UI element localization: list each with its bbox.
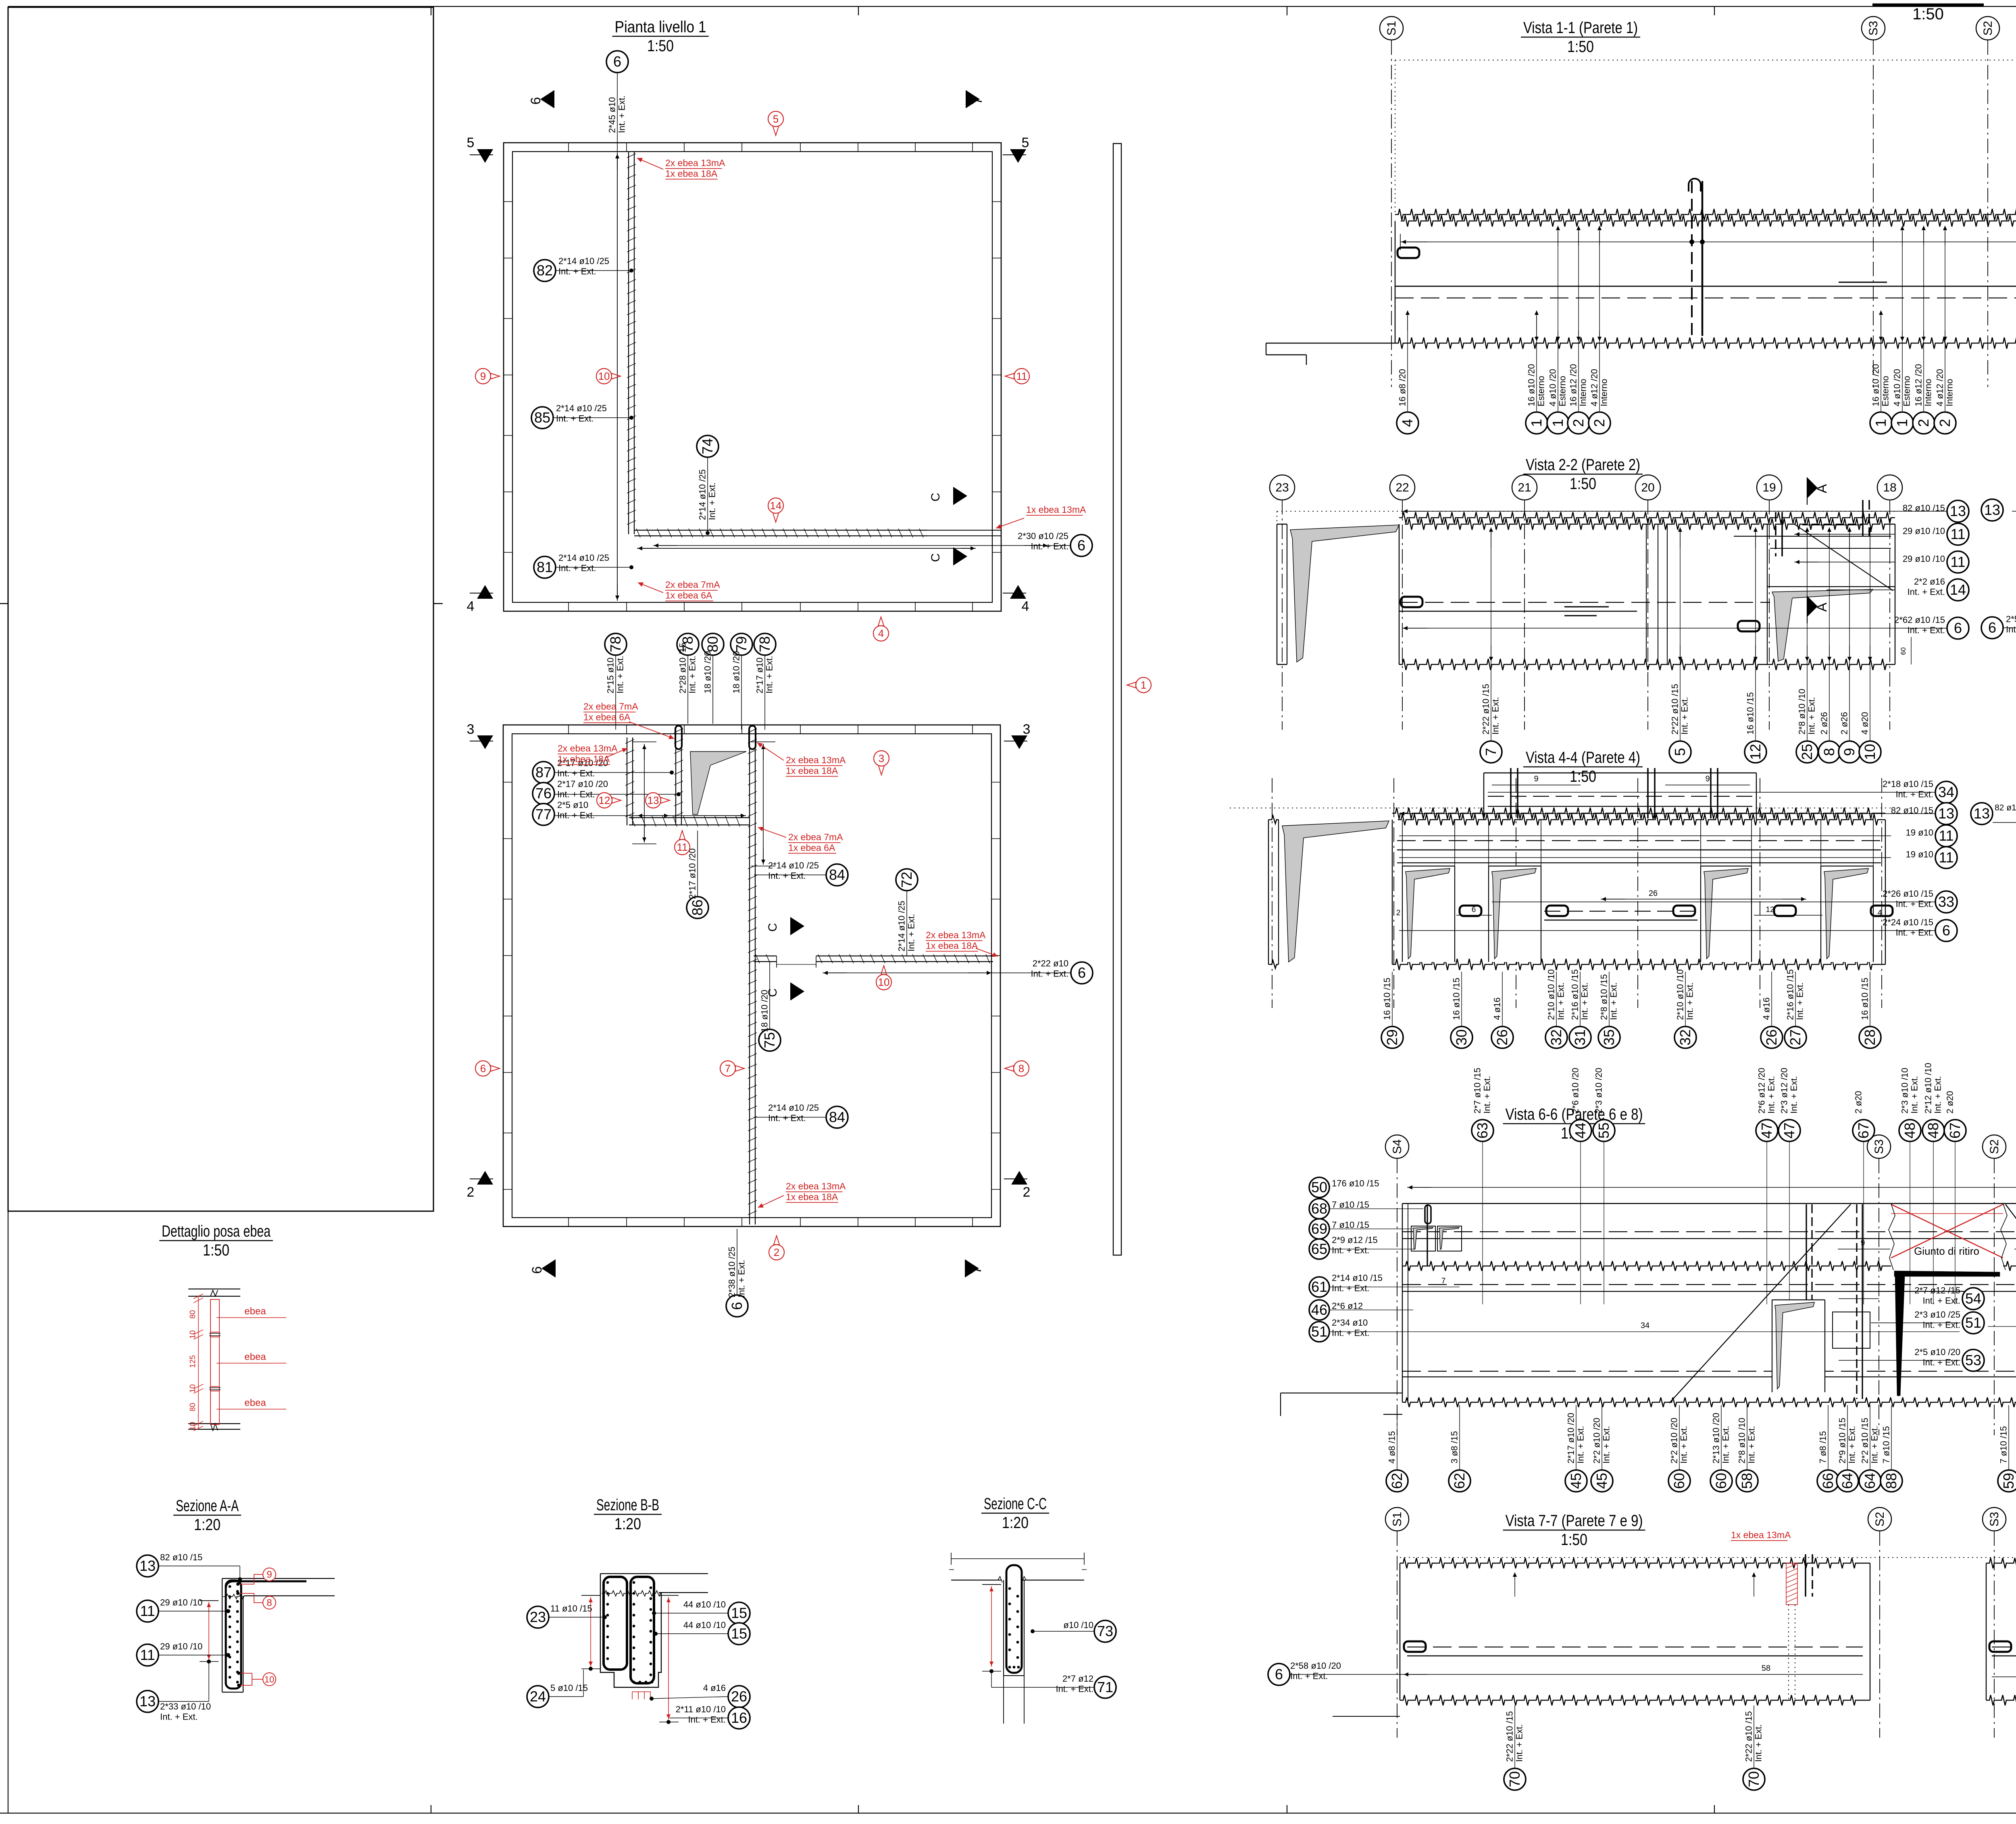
svg-text:48: 48: [1901, 1122, 1918, 1139]
svg-text:2*5 ø10: 2*5 ø10: [557, 800, 588, 810]
svg-text:16 ø10 /20: 16 ø10 /20: [1527, 364, 1537, 406]
svg-text:31: 31: [1572, 1029, 1588, 1045]
svg-text:2*9 ø12 /15: 2*9 ø12 /15: [1332, 1235, 1378, 1245]
dettaglio red bar joint 2: [210, 1386, 219, 1387]
v11 callout 1 at 4718: [1902, 231, 1903, 411]
svg-text:2*62 ø10 /15: 2*62 ø10 /15: [1894, 615, 1945, 625]
svg-text:ø10 /10: ø10 /10: [1063, 1620, 1093, 1630]
sezA top zigzag: [223, 1594, 244, 1599]
svg-text:67: 67: [1947, 1122, 1963, 1139]
svg-text:1:20: 1:20: [194, 1516, 221, 1534]
svg-text:1x ebea 13mA: 1x ebea 13mA: [1026, 504, 1086, 515]
v66 left callout 69: [1309, 1219, 1329, 1239]
midrow leader 78b: [687, 655, 688, 724]
v11 center bar dashed: [1691, 181, 1693, 336]
plan2 dim v: [644, 744, 645, 843]
svg-text:21: 21: [1518, 481, 1531, 494]
svg-text:Esterno: Esterno: [1902, 376, 1912, 406]
plan1 dim line: [617, 153, 618, 601]
dettaglio red bar: [210, 1299, 219, 1424]
v22 door left edge: [1767, 524, 1768, 664]
plan1 right wall joint: [992, 491, 1001, 492]
plan2 label 86: [687, 848, 698, 899]
v66 left callout 65: [1309, 1239, 1329, 1259]
v44 callout 27: [1795, 972, 1796, 1026]
svg-text:79: 79: [733, 636, 750, 652]
v44 gridline: [1637, 778, 1638, 1008]
plan2 marker 2 left: [477, 1171, 493, 1185]
svg-text:Int. + Ext.: Int. + Ext.: [558, 563, 596, 573]
svg-text:7: 7: [969, 1266, 984, 1274]
svg-text:15: 15: [731, 1605, 747, 1621]
svg-text:11: 11: [1950, 526, 1965, 542]
svg-text:2*2 ø10 /20: 2*2 ø10 /20: [1592, 1418, 1602, 1464]
svg-text:4: 4: [1878, 909, 1882, 917]
plan1 marker 4 right: [1010, 585, 1026, 599]
svg-text:4 ø10 /20: 4 ø10 /20: [1892, 369, 1902, 406]
plan1 left wall joint: [504, 435, 512, 436]
v44 gridline: [1272, 778, 1272, 1008]
svg-text:10: 10: [189, 1330, 197, 1339]
plan1 leader 85: [553, 417, 631, 418]
svg-text:29 ø10 /10: 29 ø10 /10: [1903, 526, 1945, 536]
plan1 leader 82: [556, 270, 631, 271]
midrow callout 78c: [754, 633, 776, 655]
sezC red dim: [991, 1586, 992, 1667]
v22 dim 82: [1402, 511, 1947, 512]
svg-text:Interno: Interno: [1578, 379, 1588, 407]
svg-text:2*17 ø10 /20: 2*17 ø10 /20: [687, 848, 698, 899]
v22 right callout 6: [1947, 617, 1969, 639]
v22 dashed rebar: [1399, 602, 1770, 603]
sezA slab line top: [222, 1578, 335, 1579]
svg-text:2x ebea 13mA: 2x ebea 13mA: [786, 1181, 846, 1191]
svg-text:62: 62: [1451, 1473, 1468, 1489]
svg-text:13: 13: [1950, 503, 1966, 519]
v22 arrow 11b: [1795, 562, 1818, 562]
v22 dim60 v: [1911, 637, 1912, 664]
dettaglio bottom slab line 1: [188, 1423, 240, 1424]
svg-text:9: 9: [1534, 775, 1538, 783]
svg-text:Interno: Interno: [1923, 379, 1933, 407]
v22 grid 23: [1270, 475, 1295, 500]
sezB callout 15b: [728, 1623, 750, 1645]
svg-text:2*38 ø10 /25: 2*38 ø10 /25: [727, 1247, 737, 1297]
svg-text:Int. + Ext.: Int. + Ext.: [1754, 1724, 1764, 1762]
v66 small rect: [1833, 1312, 1870, 1348]
svg-text:9: 9: [267, 1569, 272, 1580]
svg-text:2*9 ø10 /15: 2*9 ø10 /15: [1837, 1418, 1847, 1464]
svg-text:24: 24: [530, 1688, 546, 1705]
plan2 dim room arrows: [637, 815, 669, 816]
svg-text:3 ø8 /15: 3 ø8 /15: [1450, 1431, 1460, 1464]
svg-text:2*17 ø10 /20: 2*17 ø10 /20: [1566, 1413, 1576, 1464]
svg-text:S2: S2: [1981, 21, 1995, 36]
midrow callout 78b: [677, 633, 699, 655]
svg-text:6: 6: [729, 1302, 745, 1310]
plan2 callout 76: [533, 783, 554, 804]
svg-text:8: 8: [1821, 748, 1837, 756]
v11 callout 2 at 4824: [1945, 231, 1945, 411]
v22 top zigzag: [1399, 512, 1895, 523]
sezB rebar dots: [606, 1581, 609, 1584]
svg-text:13: 13: [1984, 502, 2000, 518]
svg-text:2*11 ø10 /10: 2*11 ø10 /10: [676, 1704, 726, 1714]
sezC slab left: [951, 1580, 1002, 1580]
svg-text:29 ø10 /10: 29 ø10 /10: [1903, 554, 1945, 564]
sezB rebar loop 1: [604, 1577, 627, 1670]
svg-text:6: 6: [1077, 537, 1085, 554]
top right thick bar: [1872, 4, 1984, 6]
plan1 interior horizontal wall: [634, 530, 927, 531]
svg-text:5: 5: [1022, 135, 1029, 150]
svg-text:30: 30: [1453, 1029, 1470, 1045]
v44 door opening: [1821, 866, 1873, 962]
v11 callout 1 at 3864: [1558, 231, 1558, 411]
plan1 dim line horiz: [637, 548, 976, 549]
svg-text:2*22 ø10 /15: 2*22 ø10 /15: [1744, 1711, 1754, 1762]
v44 gridline: [1393, 778, 1394, 1008]
svg-text:Int. + Ext.: Int. + Ext.: [1922, 1357, 1960, 1367]
plan2 left wall joint: [503, 782, 512, 783]
plan2 outer wall: [503, 725, 1000, 1226]
svg-text:1: 1: [1528, 419, 1545, 427]
plan2 marker 3 left: [477, 735, 493, 749]
svg-text:Int. + Ext.: Int. + Ext.: [1685, 982, 1695, 1020]
plan2 callout 86: [687, 897, 708, 918]
v11 callout 2 at 4771: [1923, 231, 1924, 411]
plan1 callout 6 top: [606, 51, 628, 73]
v66 black corner tail: [1895, 1276, 1905, 1396]
svg-text:2*16 ø10 /15: 2*16 ø10 /15: [1570, 969, 1580, 1020]
svg-text:14: 14: [770, 500, 782, 512]
svg-text:Esterno: Esterno: [1558, 376, 1568, 406]
plan1 bottom wall joint: [626, 602, 627, 611]
plan1 marker 5 left: [477, 149, 493, 163]
svg-text:19 ø10: 19 ø10: [1906, 828, 1934, 838]
svg-text:Sezione A-A: Sezione A-A: [176, 1497, 239, 1515]
v44 top zigzag: [1392, 808, 1885, 819]
svg-text:82 ø10 /15: 82 ø10 /15: [1903, 503, 1945, 513]
v11 top zigzag: [1395, 209, 2016, 220]
svg-text:80: 80: [189, 1310, 197, 1318]
v44 hook 4: [1774, 906, 1796, 916]
svg-text:75: 75: [761, 1032, 778, 1048]
dettaglio red dim line: [198, 1296, 199, 1428]
plan1 dim harrow r: [960, 548, 975, 549]
svg-text:Int. + Ext.: Int. + Ext.: [1747, 1426, 1757, 1464]
sezC slab break left: [998, 1576, 1002, 1582]
svg-text:2*3 ø10 /20: 2*3 ø10 /20: [1594, 1068, 1604, 1114]
svg-text:9: 9: [480, 370, 486, 382]
svg-text:7: 7: [1483, 748, 1499, 756]
plan2 red callout 7: [720, 1061, 735, 1076]
v22 band left edge: [1399, 524, 1400, 664]
svg-text:2*34 ø10: 2*34 ø10: [1332, 1318, 1368, 1328]
svg-text:6: 6: [1275, 1666, 1283, 1682]
svg-text:3: 3: [467, 722, 475, 737]
svg-text:7 ø10 /15: 7 ø10 /15: [1881, 1426, 1891, 1464]
sezC callout 73: [1094, 1620, 1116, 1642]
plan1 right wall joint: [992, 435, 1001, 436]
svg-text:1:20: 1:20: [614, 1515, 641, 1533]
svg-text:ebea: ebea: [244, 1306, 266, 1317]
sezB callout 23: [527, 1606, 549, 1628]
sezC callout 71: [1094, 1676, 1116, 1698]
plan2 red callout 3: [874, 751, 889, 766]
dettaglio bottom slab line 2: [188, 1429, 240, 1430]
svg-text:44 ø10 /10: 44 ø10 /10: [683, 1599, 726, 1610]
plan2 right wall joint: [991, 1072, 1000, 1073]
svg-text:9: 9: [1861, 1239, 1865, 1247]
v66 dim 9: [1838, 1249, 1890, 1249]
svg-text:60: 60: [1713, 1473, 1729, 1489]
v22 hook door: [1738, 621, 1760, 631]
v66 right leader 51: [1988, 1326, 2016, 1327]
svg-text:2*2 ø10 /15: 2*2 ø10 /15: [1860, 1418, 1870, 1464]
plan2 red callout 11: [675, 839, 690, 855]
svg-text:70: 70: [1745, 1771, 1762, 1787]
plan2 leader 6 bottom: [737, 1229, 737, 1295]
v66 top callout 67: [1944, 1120, 1966, 1141]
plan1 top wall joint: [915, 143, 916, 152]
v11 callout 2 at 3915: [1578, 231, 1579, 411]
plan1 left wall joint: [504, 201, 512, 202]
v44 right callout 13: [1935, 803, 1957, 825]
plan2 leader 6r arrow r: [968, 972, 991, 973]
sezA red callout 8: [263, 1596, 276, 1609]
v44 dim 6: [1456, 915, 1492, 916]
svg-text:29 ø10 /10: 29 ø10 /10: [160, 1641, 202, 1651]
svg-text:2*8 ø10 /10: 2*8 ø10 /10: [1737, 1418, 1747, 1464]
svg-text:Giunto di ritiro: Giunto di ritiro: [1914, 1245, 1979, 1257]
v66 mid zigzag: [1402, 1261, 1891, 1271]
v22 right callout 11: [1947, 551, 1969, 573]
midrow leader 80: [712, 655, 713, 724]
v22 right callout 14: [1947, 579, 1969, 601]
plan1 right wall joint: [992, 552, 1001, 553]
v44 hook 3: [1673, 906, 1695, 916]
plan2 marker 3 right: [1011, 735, 1027, 749]
v22 splice b: [1564, 615, 1597, 616]
svg-text:Vista 1-1 (Parete 1): Vista 1-1 (Parete 1): [1523, 19, 1638, 37]
svg-text:Interno: Interno: [1945, 379, 1955, 407]
plan2 left wall joint: [503, 899, 512, 900]
v22 grid 18: [1877, 475, 1902, 500]
svg-text:11: 11: [140, 1647, 155, 1663]
plan1 marker 6 top: [540, 90, 554, 108]
svg-text:55: 55: [1595, 1122, 1612, 1139]
svg-text:2*26 ø10 /15: 2*26 ø10 /15: [1883, 889, 1933, 899]
plan2 leader 84a: [754, 875, 826, 875]
v66 bottom zigzag: [1402, 1397, 2016, 1407]
v55 left callout 13: [1971, 803, 1993, 825]
sezC rebar dots: [1008, 1587, 1011, 1590]
svg-text:64: 64: [1839, 1473, 1856, 1489]
svg-text:4: 4: [1399, 419, 1416, 427]
svg-text:2: 2: [1915, 419, 1932, 427]
dettaglio top slab line 2: [188, 1296, 240, 1297]
v22 right callout 13: [1947, 500, 1969, 522]
dettaglio bottom break: [210, 1424, 218, 1430]
svg-text:71: 71: [1097, 1679, 1113, 1695]
sezA callout 11a: [137, 1600, 158, 1622]
v66 mid callout 51: [1962, 1312, 1984, 1334]
svg-text:88: 88: [1883, 1473, 1899, 1489]
dettaglio ebea tie: [217, 1363, 286, 1364]
svg-text:70: 70: [1506, 1771, 1523, 1787]
plan2 bottom wall joint: [858, 1218, 858, 1226]
svg-text:50: 50: [1311, 1179, 1327, 1195]
plan1 left wall joint: [504, 258, 512, 258]
svg-text:81: 81: [537, 559, 553, 575]
svg-text:13: 13: [140, 1557, 156, 1574]
v11 callout 4 at 3491: [1407, 316, 1408, 411]
v22 arrow 11a: [1795, 534, 1818, 535]
v55 left dim: [1993, 822, 2016, 823]
sezB top slab line 1: [600, 1573, 708, 1574]
plan2 red arr4: [758, 827, 786, 837]
v33 dim 82: [2012, 511, 2016, 512]
v66 mid leader 53: [1839, 1360, 1960, 1361]
v66 top callout 47: [1779, 1120, 1800, 1141]
svg-text:23: 23: [1275, 481, 1289, 494]
v11 left ledge: [1266, 343, 1395, 344]
v66 left callout 46: [1309, 1300, 1329, 1320]
svg-text:Int. + Ext.: Int. + Ext.: [1031, 541, 1068, 551]
v11 grid S3: [1862, 17, 1885, 40]
plan2 red callout 12: [597, 793, 612, 808]
v66 dim 10: [2014, 1249, 2016, 1249]
svg-text:C: C: [929, 553, 942, 562]
v66 bottom callout 64: [1870, 1405, 1870, 1470]
svg-text:2 ø20: 2 ø20: [1854, 1091, 1864, 1114]
svg-text:44 ø10 /10: 44 ø10 /10: [683, 1620, 726, 1630]
sezA slab line 2: [244, 1595, 335, 1596]
svg-text:Int. + Ext.: Int. + Ext.: [1491, 697, 1501, 735]
svg-text:S2: S2: [1873, 1512, 1887, 1527]
svg-text:4 ø8 /15: 4 ø8 /15: [1387, 1431, 1397, 1464]
svg-text:Int. + Ext.: Int. + Ext.: [1922, 1295, 1960, 1306]
svg-text:1:50: 1:50: [1570, 475, 1596, 493]
v44 door opening: [1402, 866, 1455, 962]
v44 right callout 34: [1935, 781, 1957, 803]
svg-text:67: 67: [1855, 1122, 1872, 1139]
svg-text:86: 86: [689, 900, 706, 916]
sezB red dim left: [590, 1597, 591, 1667]
svg-text:Int. + Ext.: Int. + Ext.: [906, 914, 916, 952]
midrow label 78b: [678, 643, 688, 693]
v44 door opening: [1489, 866, 1541, 962]
v22 bottom zigzag2: [1769, 659, 1895, 670]
svg-text:23: 23: [530, 1609, 546, 1625]
v66 mid callout 53: [1962, 1349, 1984, 1371]
svg-text:2*10 ø10 /10: 2*10 ø10 /10: [1546, 969, 1556, 1020]
v66 left callout 61: [1309, 1277, 1329, 1297]
v44 dotted top: [1230, 808, 1484, 808]
plan1 red callout 5: [768, 111, 783, 127]
plan2 interior horizontal wall stub: [754, 956, 777, 956]
plan1 marker 5 right: [1010, 149, 1026, 163]
svg-text:12: 12: [1766, 906, 1774, 914]
svg-text:28: 28: [1862, 1029, 1878, 1045]
svg-text:4 ø16: 4 ø16: [1762, 997, 1772, 1020]
svg-text:32: 32: [1677, 1029, 1693, 1045]
v44 top rail solid: [1397, 850, 1881, 850]
plan1 top wall joint: [568, 143, 569, 152]
plan1 top wall joint: [741, 143, 742, 152]
svg-text:Int. + Ext.: Int. + Ext.: [1795, 982, 1805, 1020]
plan1 leader 6 right: [653, 545, 1070, 546]
plan2 label 75: [760, 990, 770, 1032]
svg-text:11: 11: [1016, 370, 1027, 382]
v66 bottom callout 66: [1828, 1405, 1829, 1470]
plan2 marker 7 bottom: [965, 1260, 979, 1277]
plan1 horiz wall right thin end2: [927, 535, 1001, 536]
svg-text:Int. + Ext.: Int. + Ext.: [1332, 1328, 1370, 1338]
svg-text:2*6 ø12 /20: 2*6 ø12 /20: [1757, 1068, 1767, 1114]
svg-text:16 ø10 /15: 16 ø10 /15: [1860, 978, 1870, 1020]
svg-text:2x ebea 7mA: 2x ebea 7mA: [788, 832, 843, 842]
v66 lower dashed: [1402, 1371, 2016, 1372]
svg-text:45: 45: [1568, 1473, 1584, 1489]
plan2 room top hook2: [749, 726, 756, 749]
v22 grid 20: [1635, 475, 1660, 500]
svg-text:2*45 ø10: 2*45 ø10: [607, 97, 617, 133]
dettaglio red bar joint 1: [210, 1332, 219, 1333]
svg-text:2*3 ø10 /25: 2*3 ø10 /25: [1914, 1310, 1960, 1320]
svg-text:13: 13: [1938, 805, 1954, 822]
v44 left wedge: [1282, 821, 1389, 962]
svg-text:Int. + Ext.: Int. + Ext.: [617, 95, 627, 133]
svg-text:Vista 4-4 (Parete 4): Vista 4-4 (Parete 4): [1526, 749, 1640, 766]
plan1 red callout 11: [1014, 369, 1029, 384]
svg-text:2x ebea 13mA: 2x ebea 13mA: [786, 755, 846, 765]
v66 top callout 55: [1593, 1120, 1615, 1141]
v44 callout 28: [1870, 972, 1870, 1026]
svg-text:25: 25: [1799, 744, 1815, 760]
v66 left callout 68: [1309, 1199, 1329, 1219]
midrow callout 78a: [605, 633, 627, 655]
v22 callout 7: [1491, 532, 1491, 742]
v22 joint pair: [1646, 524, 1647, 664]
plan2 bottom wall joint: [741, 1218, 742, 1226]
svg-text:C: C: [929, 493, 942, 502]
v66 left leader 46: [1330, 1310, 1413, 1310]
svg-text:68: 68: [1311, 1200, 1327, 1217]
plan2 right wall joint: [991, 782, 1000, 783]
svg-text:1x ebea 6A: 1x ebea 6A: [788, 842, 835, 853]
v22 door wedge: [1772, 589, 1873, 661]
plan1 dim arrow top: [617, 154, 618, 169]
svg-text:5: 5: [773, 113, 779, 125]
svg-text:46: 46: [1311, 1301, 1327, 1318]
plan2 callout 84b: [826, 1106, 848, 1128]
plan2 bottom wall joint: [972, 1218, 973, 1226]
v66 upper dashed: [1402, 1231, 2016, 1232]
v66 top callout 47: [1756, 1120, 1778, 1141]
sezC rebar loop: [1006, 1565, 1022, 1673]
v66 top callout 44: [1570, 1120, 1591, 1141]
plan1 leader 74: [707, 457, 708, 533]
svg-text:84: 84: [829, 1109, 845, 1125]
v44 callout 30: [1461, 972, 1462, 1026]
sheet bottom fold tick: [1287, 1805, 1287, 1813]
svg-text:Int. + Ext.: Int. + Ext.: [1332, 1283, 1370, 1293]
v66 bottom callout 59: [2008, 1405, 2009, 1470]
v44 hook 5: [1871, 906, 1893, 916]
svg-text:1x ebea 18A: 1x ebea 18A: [665, 168, 718, 179]
